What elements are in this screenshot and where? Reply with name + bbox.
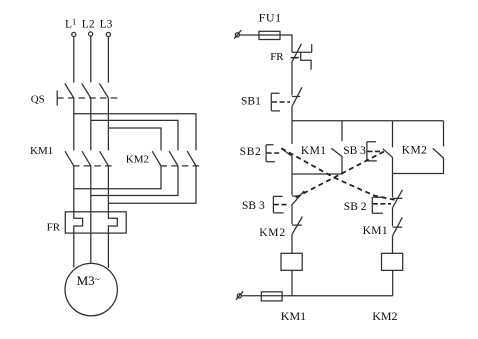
FR NC contact bar bbox=[292, 51, 312, 53]
svg-text:KM1: KM1 bbox=[30, 145, 53, 157]
bottom supply terminal bbox=[236, 291, 243, 300]
svg-text:KM2: KM2 bbox=[126, 154, 149, 166]
FR heater element phase3 bbox=[108, 212, 117, 233]
svg-text:KM1: KM1 bbox=[363, 225, 388, 237]
contactor KM2 main contact pole1 bbox=[152, 151, 161, 166]
QS actuator tick bbox=[56, 91, 58, 106]
svg-text:L3: L3 bbox=[100, 19, 113, 31]
wire L2 drop to QS bbox=[90, 36, 92, 82]
mechanical linkage dashed B (SB3-SB3) bbox=[294, 152, 384, 199]
SB2 NO contact blade bbox=[282, 149, 292, 156]
wire L1 drop to QS bbox=[73, 37, 75, 83]
svg-text:KM2: KM2 bbox=[402, 145, 427, 157]
bottom bus wire bbox=[261, 295, 392, 297]
control: top-left supply terminal bbox=[234, 30, 241, 39]
FR thermal release zigzag bbox=[301, 44, 312, 69]
wire phase1 QS to KM1 bbox=[73, 98, 75, 150]
stop button SB1 NC contact bbox=[292, 87, 302, 106]
contactor KM2 main contact pole2 bbox=[169, 151, 178, 166]
wire FR to motor phase1 bbox=[73, 233, 75, 267]
svg-text:KM2: KM2 bbox=[259, 227, 286, 239]
node L2 terminal bbox=[89, 32, 93, 36]
KM2 linkage dashed bar bbox=[161, 165, 204, 167]
FR control NC contact blade bbox=[292, 44, 301, 62]
svg-text:FR: FR bbox=[270, 51, 284, 63]
svg-text:SB1: SB1 bbox=[241, 95, 261, 107]
disconnect switch QS pole 3 blade bbox=[99, 84, 108, 99]
wire KM2 aux down and rejoin bbox=[393, 158, 444, 174]
wire left branch to SB3 NC bbox=[291, 174, 293, 195]
SB3 actuator bracket bbox=[367, 142, 382, 161]
wire to KM2 interlock bbox=[291, 205, 293, 224]
svg-text:SB2: SB2 bbox=[240, 146, 262, 158]
disconnect switch QS pole 1 blade bbox=[65, 84, 74, 99]
svg-text:L1: L1 bbox=[65, 17, 76, 31]
wire terminal to fuse FU2 bbox=[241, 295, 261, 297]
SB3 NO contact blade bbox=[383, 149, 393, 158]
wire tap phase1 to KM2 column3 bbox=[74, 114, 196, 151]
wire KM1 pole2 down bbox=[90, 166, 92, 212]
svg-text:KM2: KM2 bbox=[372, 309, 397, 323]
wire tap phase2 to KM2 column2 bbox=[91, 120, 178, 150]
wire to KM2 coil bbox=[392, 236, 394, 254]
KM2 NC interlock contact (left) bbox=[292, 217, 302, 235]
svg-text:SB 2: SB 2 bbox=[344, 201, 367, 213]
wire FR contact to SB1 bbox=[291, 62, 293, 95]
FR NC small cross tick bbox=[291, 57, 299, 59]
svg-text:SB 3: SB 3 bbox=[242, 200, 265, 212]
wire KM1 aux down and rejoin bbox=[292, 157, 342, 175]
wire KM1 pole3 down bbox=[107, 166, 109, 212]
fuse FU1 body bbox=[259, 31, 280, 39]
contactor KM2 main contact pole3 bbox=[187, 151, 196, 166]
SB3 NC actuator bracket bbox=[273, 196, 289, 213]
wire KM2 pole3 down and merge bbox=[108, 166, 196, 203]
wire KM2 pole2 down and merge bbox=[91, 166, 178, 196]
wire terminal to fuse FU1 bbox=[240, 34, 260, 36]
contactor KM1 main contact pole3 bbox=[100, 151, 109, 166]
wire FR to motor phase2 bbox=[90, 233, 92, 263]
SB2 NC actuator bracket bbox=[372, 197, 391, 213]
QS linkage dashed bar bbox=[57, 97, 121, 99]
svg-text:KM1: KM1 bbox=[301, 145, 326, 157]
mechanical linkage dashed A (SB2-SB2) bbox=[281, 148, 394, 200]
node L1 terminal bbox=[72, 32, 76, 36]
svg-text:SB 3: SB 3 bbox=[343, 145, 366, 157]
wire tap phase3 to KM2 column1 bbox=[108, 128, 161, 150]
node L3 terminal bbox=[106, 32, 110, 36]
wire SB1 to top bus bbox=[291, 106, 293, 121]
start button SB3 branch wire top bbox=[392, 121, 394, 148]
wire L3 drop to QS bbox=[107, 37, 109, 83]
KM2 aux NO contact blade bbox=[433, 148, 444, 158]
svg-text:M3~: M3~ bbox=[77, 273, 100, 288]
start button SB2 branch wire top bbox=[291, 121, 293, 144]
wire KM1 coil to bottom bus bbox=[291, 270, 293, 296]
wire KM1 pole1 down bbox=[73, 166, 75, 212]
SB1 button actuator bracket bbox=[271, 93, 290, 111]
SB3 NC contact (left column) bbox=[292, 191, 305, 206]
contactor KM1 main contact pole2 bbox=[82, 151, 91, 166]
SB2 NC contact (right column) bbox=[393, 190, 403, 208]
KM1 aux self-hold branch bbox=[341, 121, 343, 141]
contactor coil KM2 bbox=[382, 253, 403, 270]
KM1 linkage dashed bar bbox=[73, 165, 113, 167]
wire SB3 down bbox=[392, 157, 394, 173]
wire through FU1 to corner bbox=[259, 35, 292, 52]
wire phase3 QS to KM1 bbox=[107, 98, 109, 150]
contactor coil KM1 bbox=[281, 253, 302, 270]
FR heater element phase1 bbox=[74, 212, 83, 233]
wire to KM1 interlock bbox=[392, 207, 394, 226]
svg-text:FU1: FU1 bbox=[259, 11, 282, 25]
fuse FU2 body bbox=[261, 292, 282, 301]
svg-text:KM1: KM1 bbox=[281, 309, 306, 323]
wire KM2 coil to bottom bus bbox=[392, 270, 394, 295]
thermal overload relay FR box bbox=[65, 212, 126, 233]
disconnect switch QS pole 2 blade bbox=[82, 84, 91, 99]
wire FR to motor phase3 bbox=[107, 233, 109, 268]
contactor KM1 main contact pole1 bbox=[65, 151, 74, 166]
motor M3~ circle bbox=[65, 263, 117, 315]
control top bus bbox=[292, 120, 444, 122]
wire phase2 QS to KM1 bbox=[90, 98, 92, 150]
wire SB2 to junction bbox=[291, 156, 293, 174]
wire right branch to SB2 NC bbox=[392, 174, 394, 198]
svg-text:L2: L2 bbox=[82, 18, 95, 30]
wire KM2 pole1 down and merge bbox=[74, 166, 161, 189]
KM1 NC interlock contact (right) bbox=[393, 217, 403, 235]
KM2 aux branch bbox=[443, 121, 445, 147]
KM1 aux NO contact blade bbox=[331, 148, 342, 156]
SB2 actuator bracket bbox=[266, 145, 280, 162]
svg-text:QS: QS bbox=[31, 94, 45, 106]
wire to KM1 coil bbox=[291, 234, 293, 253]
svg-text:FR: FR bbox=[47, 221, 61, 233]
FR heater element phase2 wire bbox=[90, 212, 92, 233]
